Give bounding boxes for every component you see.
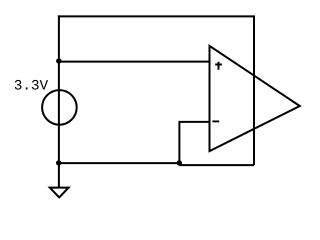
node A junction dot <box>56 58 61 63</box>
voltage source V1 circle <box>42 90 77 125</box>
value label 3.3V <box>15 80 48 90</box>
ground symbol <box>50 188 69 198</box>
op-amp plus input marker <box>215 62 222 70</box>
wire left vertical rail through source V1 <box>58 15 60 187</box>
wire right vertical leg (x=254) <box>253 16 255 165</box>
node C junction dot <box>177 160 182 165</box>
wire top rail from node A to output leg <box>58 15 255 17</box>
wire bottom right segment <box>179 164 254 166</box>
wire non-inverting input from node A to op-amp <box>59 61 210 63</box>
op-amp minus input marker <box>212 120 219 122</box>
wire bottom left from node B to node C <box>59 162 180 164</box>
node B junction dot <box>56 160 61 165</box>
wire inverting input feedback bend <box>179 122 209 165</box>
op-amp U1 triangle <box>210 46 300 151</box>
